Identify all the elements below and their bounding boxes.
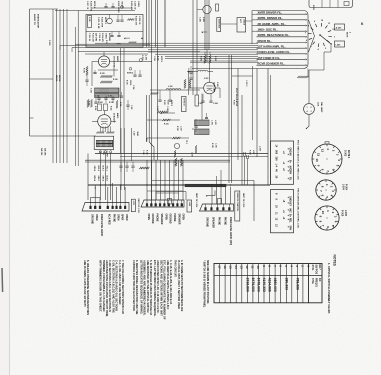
svg-text:J-305: J-305	[344, 210, 346, 217]
filament label enclosure	[192, 11, 308, 69]
svg-text:S-306: S-306	[88, 17, 90, 22]
wire left stub y79	[30, 78, 54, 80]
svg-text:NOTE 1: NOTE 1	[347, 150, 349, 159]
capacitor C-113	[126, 104, 129, 106]
resistor R-116 R-117	[96, 132, 104, 134]
fuse box on strip C	[218, 199, 222, 205]
svg-text:RED-3: RED-3	[97, 166, 99, 171]
svg-text:R-311 330: R-311 330	[91, 33, 93, 42]
svg-text:FIXED LEVEL AUDIO FIL.: FIXED LEVEL AUDIO FIL.	[258, 50, 291, 54]
svg-text:1 MEG: 1 MEG	[129, 80, 131, 86]
wire sidetone verticals	[192, 0, 194, 95]
terminal bead row	[99, 151, 101, 153]
wire switch output run	[330, 44, 332, 52]
svg-text:C-110: C-110	[95, 96, 99, 98]
capacitor C-105	[93, 72, 96, 74]
svg-text:NOTE 10: NOTE 10	[183, 98, 185, 106]
resistor R-601 box	[216, 4, 219, 11]
svg-text:R-115: R-115	[119, 102, 121, 106]
lamp I-301 dial lamp	[304, 104, 315, 115]
capacitor C-318 group	[194, 125, 197, 127]
connector bracket P-307 J-307	[242, 152, 245, 156]
resistor R-118	[184, 79, 186, 88]
wire left riser bus	[52, 9, 54, 163]
svg-text:NOTE 5: NOTE 5	[170, 100, 172, 106]
svg-text:R-310: R-310	[126, 80, 128, 85]
wire strip B feeders	[146, 160, 148, 200]
svg-text:SPK: SPK	[289, 226, 291, 231]
svg-text:GROUND: GROUND	[169, 214, 171, 224]
svg-text:XTAL: XTAL	[311, 265, 314, 272]
wire arrow tap	[162, 112, 176, 114]
svg-text:NO.*: NO.*	[318, 265, 321, 270]
svg-text:2: 2	[311, 107, 312, 109]
tube V-306 small	[107, 18, 113, 24]
svg-text:NOTE 3: NOTE 3	[104, 17, 106, 24]
node rail junction dots	[100, 184, 101, 185]
capacitor C-109	[94, 101, 97, 103]
switch S-301 rotary filament selector	[328, 35, 332, 38]
svg-text:OPEN: OPEN	[116, 214, 118, 221]
svg-text:NOTE 4: NOTE 4	[127, 72, 133, 75]
svg-text:XTAL: XTAL	[311, 278, 314, 285]
svg-text:P-308: P-308	[48, 40, 50, 46]
terminal strip J-310	[200, 204, 234, 211]
lamp I-301 box	[335, 41, 345, 47]
wire top rail y10.5	[55, 10, 135, 12]
svg-text:DIAL LAMP: DIAL LAMP	[320, 102, 323, 113]
socket S-303 crystal switch	[312, 144, 342, 174]
tube V-601 sidetone	[203, 5, 211, 13]
svg-text:SPEAKER: SPEAKER	[177, 214, 180, 225]
svg-text:L-102: L-102	[168, 86, 172, 88]
svg-text:SIDE AND SHOWN IN LAST POSITIO: SIDE AND SHOWN IN LAST POSITION.	[206, 260, 209, 304]
wire y76 jog	[232, 75, 253, 77]
svg-text:1ST AUDIO: 1ST AUDIO	[113, 56, 116, 67]
svg-text:R-318 470K: R-318 470K	[89, 1, 92, 12]
svg-text:BLK-2: BLK-2	[101, 166, 103, 171]
svg-text:R-126: R-126	[145, 150, 147, 155]
resistor R-105	[100, 75, 112, 77]
svg-text:C-312 .02: C-312 .02	[98, 33, 100, 41]
svg-text:2: 2	[349, 32, 351, 33]
wire tube drop	[201, 94, 203, 120]
box divider	[195, 95, 199, 106]
resistor R-201 R-202	[204, 55, 206, 63]
resistor R-316 run	[147, 137, 172, 139]
terminal strip J-101	[82, 203, 129, 212]
wire osc coil run	[150, 89, 200, 91]
wire feed bracket to switch	[309, 20, 315, 52]
wire label jogs	[252, 13, 257, 15]
svg-text:OPEN: OPEN	[182, 214, 184, 221]
connector J-310 remote control box	[235, 191, 240, 221]
svg-text:* SWITCH S-303 IS VIEWED FROM: * SWITCH S-303 IS VIEWED FROM PANEL	[203, 260, 206, 308]
wire arrow on rail	[94, 187, 95, 189]
svg-text:R-315: R-315	[164, 124, 169, 126]
svg-text:10: 10	[321, 211, 325, 215]
svg-text:R-202: R-202	[214, 56, 216, 61]
svg-text:V-201: V-201	[204, 78, 208, 80]
resistor R-321	[127, 19, 134, 21]
wire strip C feeders	[211, 187, 213, 204]
svg-text:THIS CIRCUIT.: THIS CIRCUIT.	[174, 260, 178, 278]
svg-text:C-304: C-304	[153, 56, 156, 61]
wire lower enclosure right	[253, 181, 255, 222]
capacitor C-206 pair	[189, 71, 192, 73]
svg-text:1. CRYSTAL SWITCH ASSEMBLY CHA: 1. CRYSTAL SWITCH ASSEMBLY CHART.	[327, 263, 331, 314]
wire mid vertical pair	[150, 47, 152, 204]
resistor R-120	[157, 111, 168, 113]
inductor L-202 choke	[195, 129, 210, 135]
svg-text:C-601: C-601	[199, 17, 201, 22]
inductor L-203 row	[187, 70, 198, 72]
socket J-305	[315, 206, 339, 230]
capacitor C-101 left	[85, 79, 88, 81]
svg-text:12: 12	[321, 149, 325, 153]
svg-text:3: 3	[311, 111, 312, 113]
capacitor C-313 C-314	[110, 35, 113, 37]
svg-text:1600~ OSC FIL.: 1600~ OSC FIL.	[258, 27, 278, 31]
connector PART OF J-101 box	[131, 199, 135, 212]
svg-text:P/N 1 THRU 3 (W-107) J-101 THR: P/N 1 THRU 3 (W-107) J-101 THRU J-103	[297, 140, 299, 180]
wire enclosure drop	[307, 69, 309, 78]
svg-text:XMTR DRIVER FIL.: XMTR DRIVER FIL.	[258, 11, 283, 15]
node note 6 reference	[129, 68, 132, 71]
svg-text:OPEN: OPEN	[164, 214, 166, 221]
svg-text:L-202: L-202	[214, 120, 216, 125]
capacitor C-110 row	[97, 97, 100, 99]
socket J-304	[316, 180, 336, 200]
switch S-601 sidetone box	[217, 18, 221, 32]
wire cluster lower rail	[75, 43, 150, 45]
wire grid leads	[91, 62, 93, 87]
svg-text:REL: REL	[289, 218, 291, 223]
svg-text:11: 11	[317, 153, 321, 156]
svg-text:6V: 6V	[289, 153, 291, 156]
svg-text:CONTROL FUNCTION OF EACH SECTI: CONTROL FUNCTION OF EACH SECTION.	[132, 260, 136, 312]
capacitor C-203 C-204	[201, 100, 204, 102]
svg-text:R-322 47K: R-322 47K	[135, 16, 138, 26]
svg-text:REMOTE CONTROL: REMOTE CONTROL	[236, 193, 238, 213]
svg-text:1 MEG: 1 MEG	[137, 1, 139, 7]
svg-text:PHONE: PHONE	[156, 214, 158, 223]
resistor R-315	[162, 119, 170, 121]
svg-text:1ST HARM AMPL FIL.: 1ST HARM AMPL FIL.	[258, 44, 286, 48]
svg-text:T-302: T-302	[102, 151, 104, 155]
svg-text:C-109: C-109	[98, 102, 103, 104]
wire chassis sides	[87, 154, 89, 201]
svg-text:330 OHM: 330 OHM	[95, 33, 97, 41]
capacitor C-120 bank	[119, 165, 122, 167]
svg-text:C-204: C-204	[213, 102, 218, 105]
svg-text:PART OF J-101: PART OF J-101	[137, 199, 140, 214]
svg-text:FREQ'S: FREQ'S	[315, 278, 318, 287]
wire arrow taps	[124, 38, 125, 39]
svg-text:10: 10	[315, 158, 319, 162]
svg-text:ORN-7: ORN-7	[97, 176, 99, 182]
resistor R-127 R-128	[175, 158, 177, 166]
inductor L-201 choke	[195, 120, 210, 126]
fuse box on strip B	[168, 199, 172, 205]
dynamotor unit outline	[309, 0, 353, 8]
svg-text:DISCR FIL.: DISCR FIL.	[258, 39, 272, 43]
wire right drops	[244, 156, 246, 185]
wire filament bus lines	[95, 42, 258, 44]
resistor R-119	[189, 79, 191, 88]
svg-text:OPEN: OPEN	[147, 214, 149, 221]
switch S-306 tone box	[88, 16, 92, 28]
svg-text:PHONE: PHONE	[223, 217, 225, 226]
svg-text:C-119: C-119	[133, 131, 135, 135]
svg-text:AUDIO TO: AUDIO TO	[33, 14, 36, 25]
capacitor C-112	[120, 95, 123, 97]
svg-text:4: 4	[307, 110, 308, 113]
wire strip B guard box	[156, 191, 186, 193]
svg-text:C-317: C-317	[179, 126, 181, 131]
resistor R-306 row	[150, 92, 158, 94]
svg-text:2D AF AMPL: 2D AF AMPL	[213, 82, 216, 94]
wire bus stubs	[59, 46, 61, 51]
svg-text:L-201: L-201	[211, 120, 213, 125]
svg-text:C-207 .1: C-207 .1	[245, 80, 247, 87]
svg-text:P-304: P-304	[345, 184, 348, 191]
svg-text:R-320 47K: R-320 47K	[130, 1, 133, 11]
capacitor C-205 pair	[205, 117, 208, 119]
svg-text:SPEAKER: SPEAKER	[160, 214, 163, 225]
transformer T-101 interstage	[95, 88, 120, 93]
svg-text:T-101: T-101	[90, 88, 92, 93]
svg-text:C-320: C-320	[191, 152, 193, 157]
svg-text:SIDETONE: SIDETONE	[218, 19, 220, 29]
svg-text:NOTE 5: NOTE 5	[160, 56, 162, 62]
svg-text:KEY: KEY	[289, 202, 291, 207]
transformer T-102 output	[94, 136, 114, 149]
svg-text:2D HARM. AMPL. FIL.: 2D HARM. AMPL. FIL.	[258, 22, 286, 26]
wire audio bus left boundary	[29, 9, 31, 136]
svg-text:P-307: P-307	[249, 150, 251, 155]
wire dynamotor leads	[321, 0, 323, 8]
svg-text:C-319 .05: C-319 .05	[138, 16, 140, 24]
wire chassis rail y154	[95, 153, 268, 155]
svg-text:S-303: S-303	[344, 150, 346, 157]
svg-text:OPEN: OPEN	[125, 214, 127, 221]
svg-text:R-319 1 MEG: R-319 1 MEG	[117, 1, 119, 13]
svg-text:C-206: C-206	[187, 68, 189, 72]
relay K-601 box	[237, 18, 246, 32]
svg-text:R-105: R-105	[100, 73, 105, 75]
svg-text:1ST FIXED IF FIL.: 1ST FIXED IF FIL.	[258, 56, 281, 60]
wire filament vertical bus	[146, 0, 148, 47]
wire chassis rail y156	[120, 156, 268, 158]
svg-text:1: 1	[307, 107, 308, 109]
svg-text:GROUND: GROUND	[90, 214, 92, 224]
svg-text:FIL: FIL	[289, 177, 291, 181]
svg-text:SW POS: SW POS	[315, 265, 318, 275]
svg-text:R-314 470K: R-314 470K	[100, 17, 103, 28]
svg-text:PHONE: PHONE	[217, 217, 219, 226]
wire top left shield corner	[30, 8, 59, 10]
resistor R-101 left	[86, 66, 88, 75]
svg-text:1-4: 1-4	[275, 164, 278, 168]
svg-text:4W-104: 4W-104	[58, 75, 61, 81]
svg-text:AMPL: AMPL	[116, 56, 119, 63]
wire top component rail	[92, 7, 132, 9]
wire centre frame verticals	[237, 69, 239, 161]
svg-text:KC: KC	[318, 278, 321, 282]
resistor R-109	[87, 99, 89, 107]
svg-text:I-301: I-301	[336, 44, 342, 46]
svg-text:NOTES: NOTES	[333, 255, 337, 267]
svg-text:R-313 47K: R-313 47K	[101, 33, 104, 43]
chart P-101 thru P-103	[271, 141, 294, 184]
wire left tie line	[30, 135, 97, 137]
svg-text:DYN: DYN	[312, 5, 314, 10]
svg-text:NOTE: NOTE	[346, 32, 348, 38]
svg-text:P-309: P-309	[233, 100, 235, 105]
svg-text:V-302: V-302	[216, 82, 218, 87]
wire chassis rail y161	[85, 161, 230, 163]
tube V-102 2nd audio amplifier	[98, 115, 111, 128]
svg-text:3W-106: 3W-106	[55, 75, 57, 81]
svg-text:1 MEG: 1 MEG	[105, 33, 107, 39]
svg-text:P/N 4 CONTD (W-108) J-104 THRU: P/N 4 CONTD (W-108) J-104 THRU J-106	[297, 189, 300, 229]
svg-text:LEADS: LEADS	[242, 19, 245, 26]
svg-text:C-315 .01 MF: C-315 .01 MF	[97, 17, 99, 29]
svg-text:GRN-6: GRN-6	[101, 176, 103, 182]
wire arrow tap sidetone	[202, 32, 203, 33]
svg-text:ETC. LETTER INDICATES WIRING S: ETC. LETTER INDICATES WIRING SEQUENCE.	[153, 260, 157, 317]
inductor L-102	[166, 89, 181, 91]
svg-text:R-316: R-316	[176, 126, 178, 131]
svg-text:MODULATOR: MODULATOR	[36, 14, 39, 28]
svg-text:GRN-4: GRN-4	[93, 166, 96, 172]
svg-text:PHONE: PHONE	[173, 214, 175, 223]
wire reg top leads	[204, 52, 206, 55]
svg-text:C-113: C-113	[130, 105, 132, 109]
svg-text:J-304: J-304	[342, 184, 345, 191]
svg-text:R-218: R-218	[211, 143, 213, 148]
wire module mid rail	[86, 31, 143, 33]
filament function labels	[257, 13, 306, 15]
svg-text:R-101: R-101	[83, 68, 85, 73]
wire audio hline y70	[88, 69, 148, 71]
svg-text:GROUND: GROUND	[205, 217, 207, 227]
svg-text:C-126: C-126	[142, 150, 144, 155]
wire tube V-102 pins	[100, 127, 102, 133]
transformer bar T-310	[185, 184, 226, 187]
resistor R-125	[139, 167, 149, 169]
terminal strip J-102	[141, 200, 184, 207]
svg-text:FIXED LEVEL AUDIO (600): FIXED LEVEL AUDIO (600)	[229, 217, 232, 245]
svg-text:SPEAKER: SPEAKER	[211, 217, 214, 228]
svg-text:A-301: A-301	[336, 26, 343, 29]
svg-text:BRN-8: BRN-8	[93, 176, 95, 182]
svg-text:C-118: C-118	[166, 106, 168, 111]
resistor R-106	[100, 81, 112, 83]
svg-text:PHONE: PHONE	[113, 214, 115, 223]
svg-text:XMTR. REACTANCE FIL.: XMTR. REACTANCE FIL.	[258, 33, 290, 37]
svg-text:NO.8 RED: NO.8 RED	[108, 214, 110, 225]
svg-text:TP-2: TP-2	[185, 140, 187, 144]
resistor block R-112 R-113	[98, 104, 102, 111]
svg-text:J-306: J-306	[188, 202, 190, 207]
wire output leads to strips	[99, 153, 101, 200]
svg-text:2D AUDIO: 2D AUDIO	[113, 113, 116, 123]
svg-text:P-305: P-305	[341, 210, 343, 217]
wire chassis rail y160	[85, 159, 230, 161]
tube V-101 1st audio amplifier	[98, 56, 109, 67]
resistor R-313	[128, 42, 136, 44]
svg-text:RCVR 2D MIXER FIL.: RCVR 2D MIXER FIL.	[258, 61, 285, 65]
wire stage rails	[78, 51, 200, 53]
svg-text:C-117: C-117	[156, 106, 158, 111]
tube V-303 small	[174, 143, 179, 148]
wire chassis bottom heavy	[88, 184, 270, 186]
capacitor C-312 C-313	[104, 6, 107, 8]
resistor R-317	[174, 150, 176, 157]
svg-text:ARE IN OHMS, CAPS IN UUF 1/2 W: ARE IN OHMS, CAPS IN UUF 1/2 WATT.	[83, 260, 87, 307]
connector J-306 box	[187, 200, 192, 212]
wire sidetone leads	[221, 23, 237, 25]
svg-text:LETTER INDICATES SEQUENCE OF W: LETTER INDICATES SEQUENCE OF WIRING.	[139, 260, 143, 315]
svg-text:AMPL: AMPL	[116, 113, 119, 119]
svg-text:YEL-1: YEL-1	[106, 166, 108, 171]
svg-text:2W-104: 2W-104	[44, 148, 47, 156]
switch S-301 wiper arm	[320, 35, 331, 44]
svg-text:BLU-5: BLU-5	[106, 176, 108, 181]
resistor R-303	[297, 76, 307, 78]
svg-text:R-112: R-112	[94, 106, 96, 110]
svg-text:SPK: SPK	[289, 170, 291, 175]
speech module box	[86, 15, 143, 48]
node small junction	[121, 6, 124, 9]
svg-text:C-111: C-111	[108, 96, 112, 98]
capacitor C-114 C-115 pair	[133, 74, 136, 76]
wire lower enclosure top	[152, 180, 254, 182]
wire strip B jog rails	[147, 190, 183, 192]
wire volt reg verticals	[228, 55, 230, 183]
svg-text:.05 MF: .05 MF	[136, 131, 138, 136]
wire audio verticals	[120, 48, 122, 154]
svg-text:500: 500	[275, 150, 278, 155]
wire left drop x78	[77, 11, 79, 52]
svg-text:C-216: C-216	[214, 143, 216, 148]
svg-text:3W-106: 3W-106	[40, 148, 42, 156]
svg-text:C-317 .01: C-317 .01	[86, 1, 88, 9]
svg-text:MIC: MIC	[289, 209, 291, 214]
capacitor C-316 pair	[116, 19, 119, 21]
chart P-104 contd	[271, 190, 294, 233]
svg-text:R-113: R-113	[110, 106, 112, 110]
svg-text:C-318 .02: C-318 .02	[133, 1, 135, 9]
wire reg side leads	[188, 71, 190, 95]
svg-text:250: 250	[275, 157, 278, 162]
wire hook arrow to J-310	[207, 195, 215, 197]
resistor R-114 R-115 pair	[91, 99, 93, 107]
svg-text:GROUND: GROUND	[151, 214, 153, 224]
capacitor C-117 C-118	[158, 99, 161, 101]
svg-text:J-306: J-306	[144, 55, 146, 61]
resistor A-301 box	[335, 24, 345, 30]
svg-text:R-309: R-309	[163, 100, 165, 105]
svg-text:FIXED LEVEL AUDIO: FIXED LEVEL AUDIO	[100, 214, 103, 237]
svg-text:J-307: J-307	[252, 150, 254, 154]
tube V-201 voltage regulator	[204, 82, 216, 94]
table crystal switch assembly chart	[214, 264, 322, 303]
svg-text:R-305: R-305	[156, 56, 158, 61]
svg-text:OPEN: OPEN	[95, 214, 97, 221]
